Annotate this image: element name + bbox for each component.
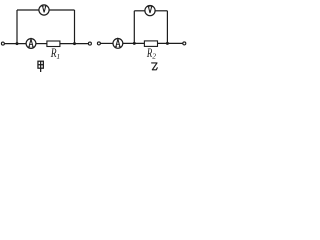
svg-text:1: 1 bbox=[56, 52, 60, 61]
svg-text:2: 2 bbox=[152, 51, 156, 60]
